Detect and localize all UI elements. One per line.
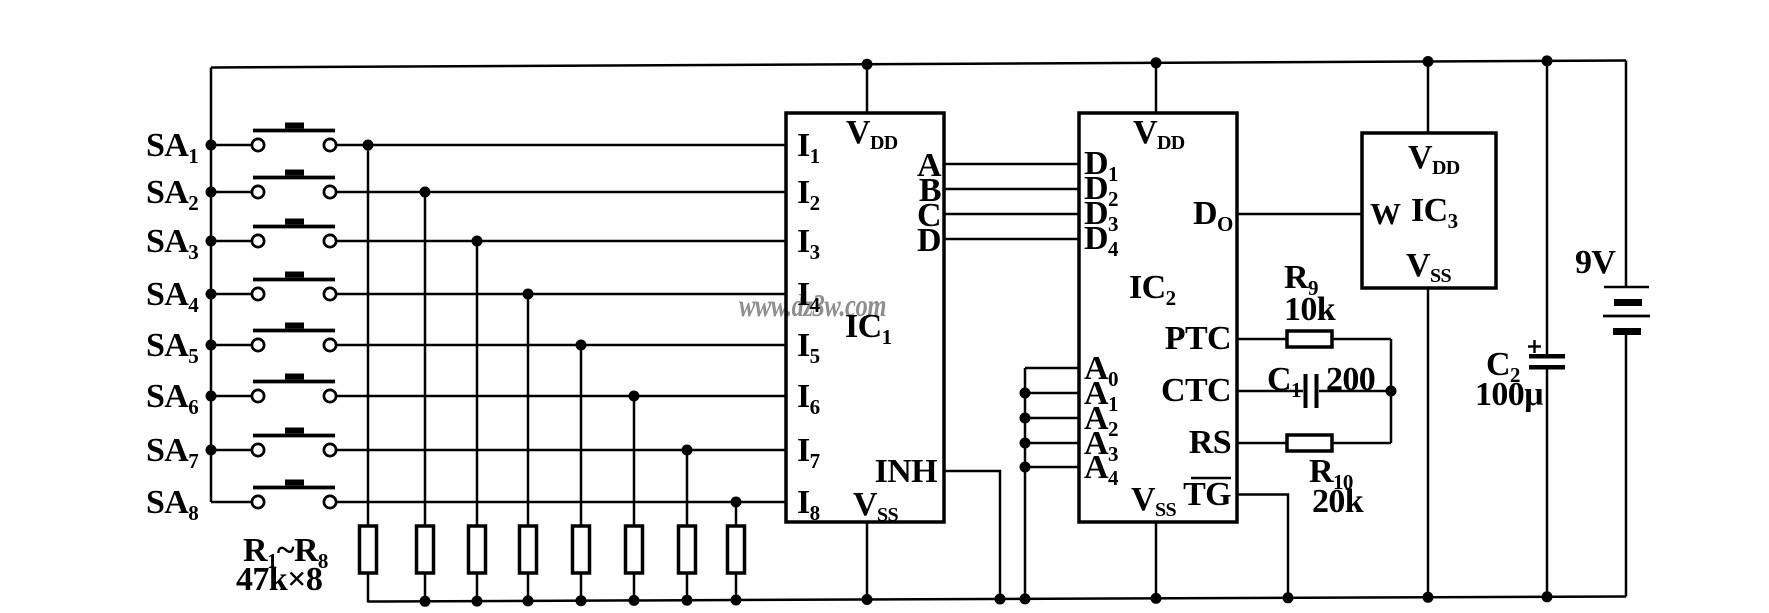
wire node to resistor R7: [686, 450, 689, 526]
wire R6 to ground bus: [633, 573, 636, 601]
node SA2 / R2 junction: [420, 187, 431, 198]
junction left bus / SA2: [206, 187, 217, 198]
svg-text:TG: TG: [1183, 476, 1231, 513]
svg-text:SA2: SA2: [146, 174, 198, 215]
svg-text:VDD: VDD: [1133, 114, 1185, 154]
junction INH wire / ground bus: [995, 594, 1006, 605]
resistor R5: [573, 526, 590, 573]
svg-text:I5: I5: [797, 327, 820, 368]
wire R5 to ground bus: [580, 573, 583, 602]
junction R3 / ground bus: [472, 596, 483, 607]
svg-text:PTC: PTC: [1165, 320, 1231, 357]
wire node to resistor R2: [424, 192, 427, 526]
wire IC2 VDD to top bus: [1155, 62, 1158, 113]
wire node to resistor R6: [633, 396, 636, 526]
resistor R8: [728, 526, 745, 573]
wire C2 to ground bus: [1546, 369, 1549, 598]
junction IC1 VDD / top bus: [862, 59, 873, 70]
wire node to resistor R4: [527, 294, 530, 526]
wire R3 to ground bus: [476, 573, 479, 602]
wire SA6 to IC1 pin I6: [336, 395, 786, 398]
junction R8 / ground bus: [731, 595, 742, 606]
junction IC3 VDD / top bus: [1423, 56, 1434, 67]
svg-text:I4: I4: [797, 276, 821, 317]
resistor R1: [360, 526, 377, 573]
svg-text:20k: 20k: [1312, 483, 1364, 520]
node SA8 / R8 junction: [731, 497, 742, 508]
wire RS to R10: [1237, 442, 1287, 445]
svg-text:W: W: [1370, 196, 1401, 231]
wire top supply bus VDD: [211, 61, 1626, 68]
junction left bus / SA3: [206, 236, 217, 247]
svg-text:I7: I7: [797, 432, 820, 473]
junction C1 / right vertical: [1386, 386, 1397, 397]
switch SA3: [146, 219, 336, 265]
wire bus to SA8 left terminal: [211, 501, 252, 504]
capacitor C1: [1304, 374, 1308, 408]
wire SA4 to IC1 pin I4: [336, 293, 786, 296]
svg-text:47k×8: 47k×8: [236, 561, 322, 598]
junction C2 / top bus: [1542, 55, 1553, 66]
svg-text:VSS: VSS: [1406, 247, 1451, 287]
svg-text:SA3: SA3: [146, 223, 198, 264]
wire SA1 to IC1 pin I1: [336, 144, 786, 147]
wire bus to SA7 left terminal: [211, 449, 252, 452]
polarity + of C2: [1528, 345, 1541, 347]
wire top bus to C2: [1546, 60, 1549, 355]
svg-text:I1: I1: [797, 127, 820, 168]
junction left bus / SA7: [206, 445, 217, 456]
wire left switch common bus: [210, 68, 213, 503]
wire CTC to C1: [1237, 390, 1303, 393]
junction R4 / ground bus: [523, 595, 534, 606]
junction C2 / ground bus: [1542, 591, 1553, 602]
wire R4 to ground bus: [527, 573, 530, 602]
wire Do to W of IC3: [1237, 213, 1362, 216]
op IC3 box: [1362, 133, 1496, 288]
junction IC3 VSS / ground bus: [1423, 592, 1434, 603]
wire INH to ground bus: [944, 471, 1000, 600]
switch SA7: [146, 428, 336, 474]
svg-text:I8: I8: [797, 484, 820, 525]
wire A2 stub: [1025, 417, 1079, 420]
wire node to resistor R5: [580, 345, 583, 526]
node SA5 / R5 junction: [576, 340, 587, 351]
wire SA8 to IC1 pin I8: [336, 501, 786, 504]
junction IC2 VSS / ground bus: [1151, 593, 1162, 604]
svg-text:INH: INH: [875, 453, 938, 490]
resistor R10: [1287, 435, 1332, 451]
svg-text:VSS: VSS: [1131, 481, 1176, 521]
wire R9 to right node: [1332, 338, 1391, 341]
capacitor C2: [1529, 354, 1565, 359]
resistor R2: [417, 526, 434, 573]
svg-text:SA4: SA4: [146, 276, 199, 317]
svg-text:IC3: IC3: [1411, 192, 1458, 233]
svg-text:10k: 10k: [1284, 291, 1336, 328]
wire IC2 VSS to ground bus: [1155, 522, 1158, 599]
svg-text:RS: RS: [1189, 424, 1231, 461]
switch SA5: [146, 323, 336, 369]
junction R7 / ground bus: [682, 595, 693, 606]
switch SA8: [146, 480, 336, 526]
wire bus to SA6 left terminal: [211, 395, 252, 398]
svg-text:C1: C1: [1267, 361, 1301, 402]
junction A2 / address bus: [1020, 413, 1031, 424]
switch SA1: [146, 123, 336, 169]
wire node to resistor R1: [367, 145, 370, 526]
svg-text:I3: I3: [797, 223, 820, 264]
wire A to D1: [944, 163, 1079, 166]
svg-text:DO: DO: [1193, 195, 1233, 236]
junction IC2 VDD / top bus: [1151, 57, 1162, 68]
svg-text:I2: I2: [797, 174, 820, 215]
wire R7 to ground bus: [686, 573, 689, 601]
svg-text:VDD: VDD: [1408, 139, 1460, 179]
svg-text:SA8: SA8: [146, 484, 198, 525]
wire TG to ground bus: [1237, 495, 1288, 599]
switch SA6: [146, 374, 336, 420]
wire bus to SA5 left terminal: [211, 344, 252, 347]
wire A4 stub: [1025, 466, 1079, 469]
wire R10 to right node: [1332, 442, 1391, 445]
op IC2 box: [1079, 113, 1237, 522]
junction A1 / address bus: [1020, 388, 1031, 399]
junction left bus / SA1: [206, 140, 217, 151]
svg-text:100μ: 100μ: [1475, 376, 1543, 413]
node SA3 / R3 junction: [472, 236, 483, 247]
wire node to resistor R3: [476, 241, 479, 526]
svg-text:SA5: SA5: [146, 327, 198, 368]
svg-text:SA7: SA7: [146, 432, 198, 473]
resistor R9: [1287, 331, 1332, 347]
wire R2 to ground bus: [424, 573, 427, 602]
junction R2 / ground bus: [420, 596, 431, 607]
wire bottom ground bus VSS: [368, 597, 1626, 602]
switch SA2: [146, 170, 336, 216]
svg-text:IC2: IC2: [1129, 269, 1176, 310]
junction TG wire / ground bus: [1283, 592, 1294, 603]
junction left bus / SA6: [206, 391, 217, 402]
wire battery - to ground bus: [1625, 335, 1628, 597]
resistor R7: [679, 526, 696, 573]
wire RC network right vertical: [1390, 339, 1393, 443]
wire A1 stub: [1025, 392, 1079, 395]
svg-text:CTC: CTC: [1161, 372, 1231, 409]
svg-text:D: D: [917, 222, 941, 259]
wire bus to SA2 left terminal: [211, 191, 252, 194]
wire C to D3: [944, 213, 1079, 216]
wire top bus to battery +: [1625, 61, 1628, 288]
wire bus to SA1 left terminal: [211, 144, 252, 147]
junction left bus / SA4: [206, 289, 217, 300]
wire B to D2: [944, 188, 1079, 191]
wire R1 to ground bus: [367, 573, 370, 603]
wire SA7 to IC1 pin I7: [336, 449, 786, 452]
svg-text:VSS: VSS: [853, 486, 898, 526]
wire SA3 to IC1 pin I3: [336, 240, 786, 243]
junction left bus / SA5: [206, 340, 217, 351]
wire node to resistor R8: [735, 502, 738, 526]
wire PTC to R9: [1237, 338, 1287, 341]
wire bus to SA3 left terminal: [211, 240, 252, 243]
switch SA4: [146, 272, 336, 318]
junction address bus / ground bus: [1020, 593, 1031, 604]
svg-text:SA1: SA1: [146, 127, 198, 168]
wire IC1 VDD to top bus: [866, 63, 869, 113]
node SA4 / R4 junction: [523, 289, 534, 300]
wire IC1 VSS to ground bus: [866, 522, 869, 601]
svg-text:VDD: VDD: [846, 114, 898, 154]
wire SA2 to IC1 pin I2: [336, 191, 786, 194]
junction R5 / ground bus: [576, 595, 587, 606]
wire C1 to right node: [1319, 390, 1391, 393]
op IC1 box: [786, 113, 944, 522]
node SA1 / R1 junction: [363, 140, 374, 151]
svg-text:SA6: SA6: [146, 378, 198, 419]
wire bus to SA4 left terminal: [211, 293, 252, 296]
wire R8 to ground bus: [735, 573, 738, 601]
svg-text:I6: I6: [797, 378, 820, 419]
node SA7 / R7 junction: [682, 445, 693, 456]
junction IC1 VSS / ground bus: [862, 594, 873, 605]
wire A3 stub: [1025, 442, 1079, 445]
svg-text:9V: 9V: [1575, 244, 1616, 281]
battery 9V: [1603, 287, 1650, 335]
wire A0 stub: [1025, 367, 1079, 370]
resistor R3: [469, 526, 486, 573]
wire IC3 VDD to top bus: [1427, 61, 1430, 134]
svg-text:200: 200: [1326, 361, 1375, 398]
resistor R6: [626, 526, 643, 573]
resistor R4: [520, 526, 537, 573]
junction A3 / address bus: [1020, 438, 1031, 449]
junction A4 / address bus: [1020, 462, 1031, 473]
node SA6 / R6 junction: [629, 391, 640, 402]
wire address bus vertical (A0-A4 common): [1024, 368, 1027, 600]
junction R6 / ground bus: [629, 595, 640, 606]
wire IC3 VSS to ground bus: [1427, 288, 1430, 598]
wire D to D4: [944, 238, 1079, 241]
wire SA5 to IC1 pin I5: [336, 344, 786, 347]
